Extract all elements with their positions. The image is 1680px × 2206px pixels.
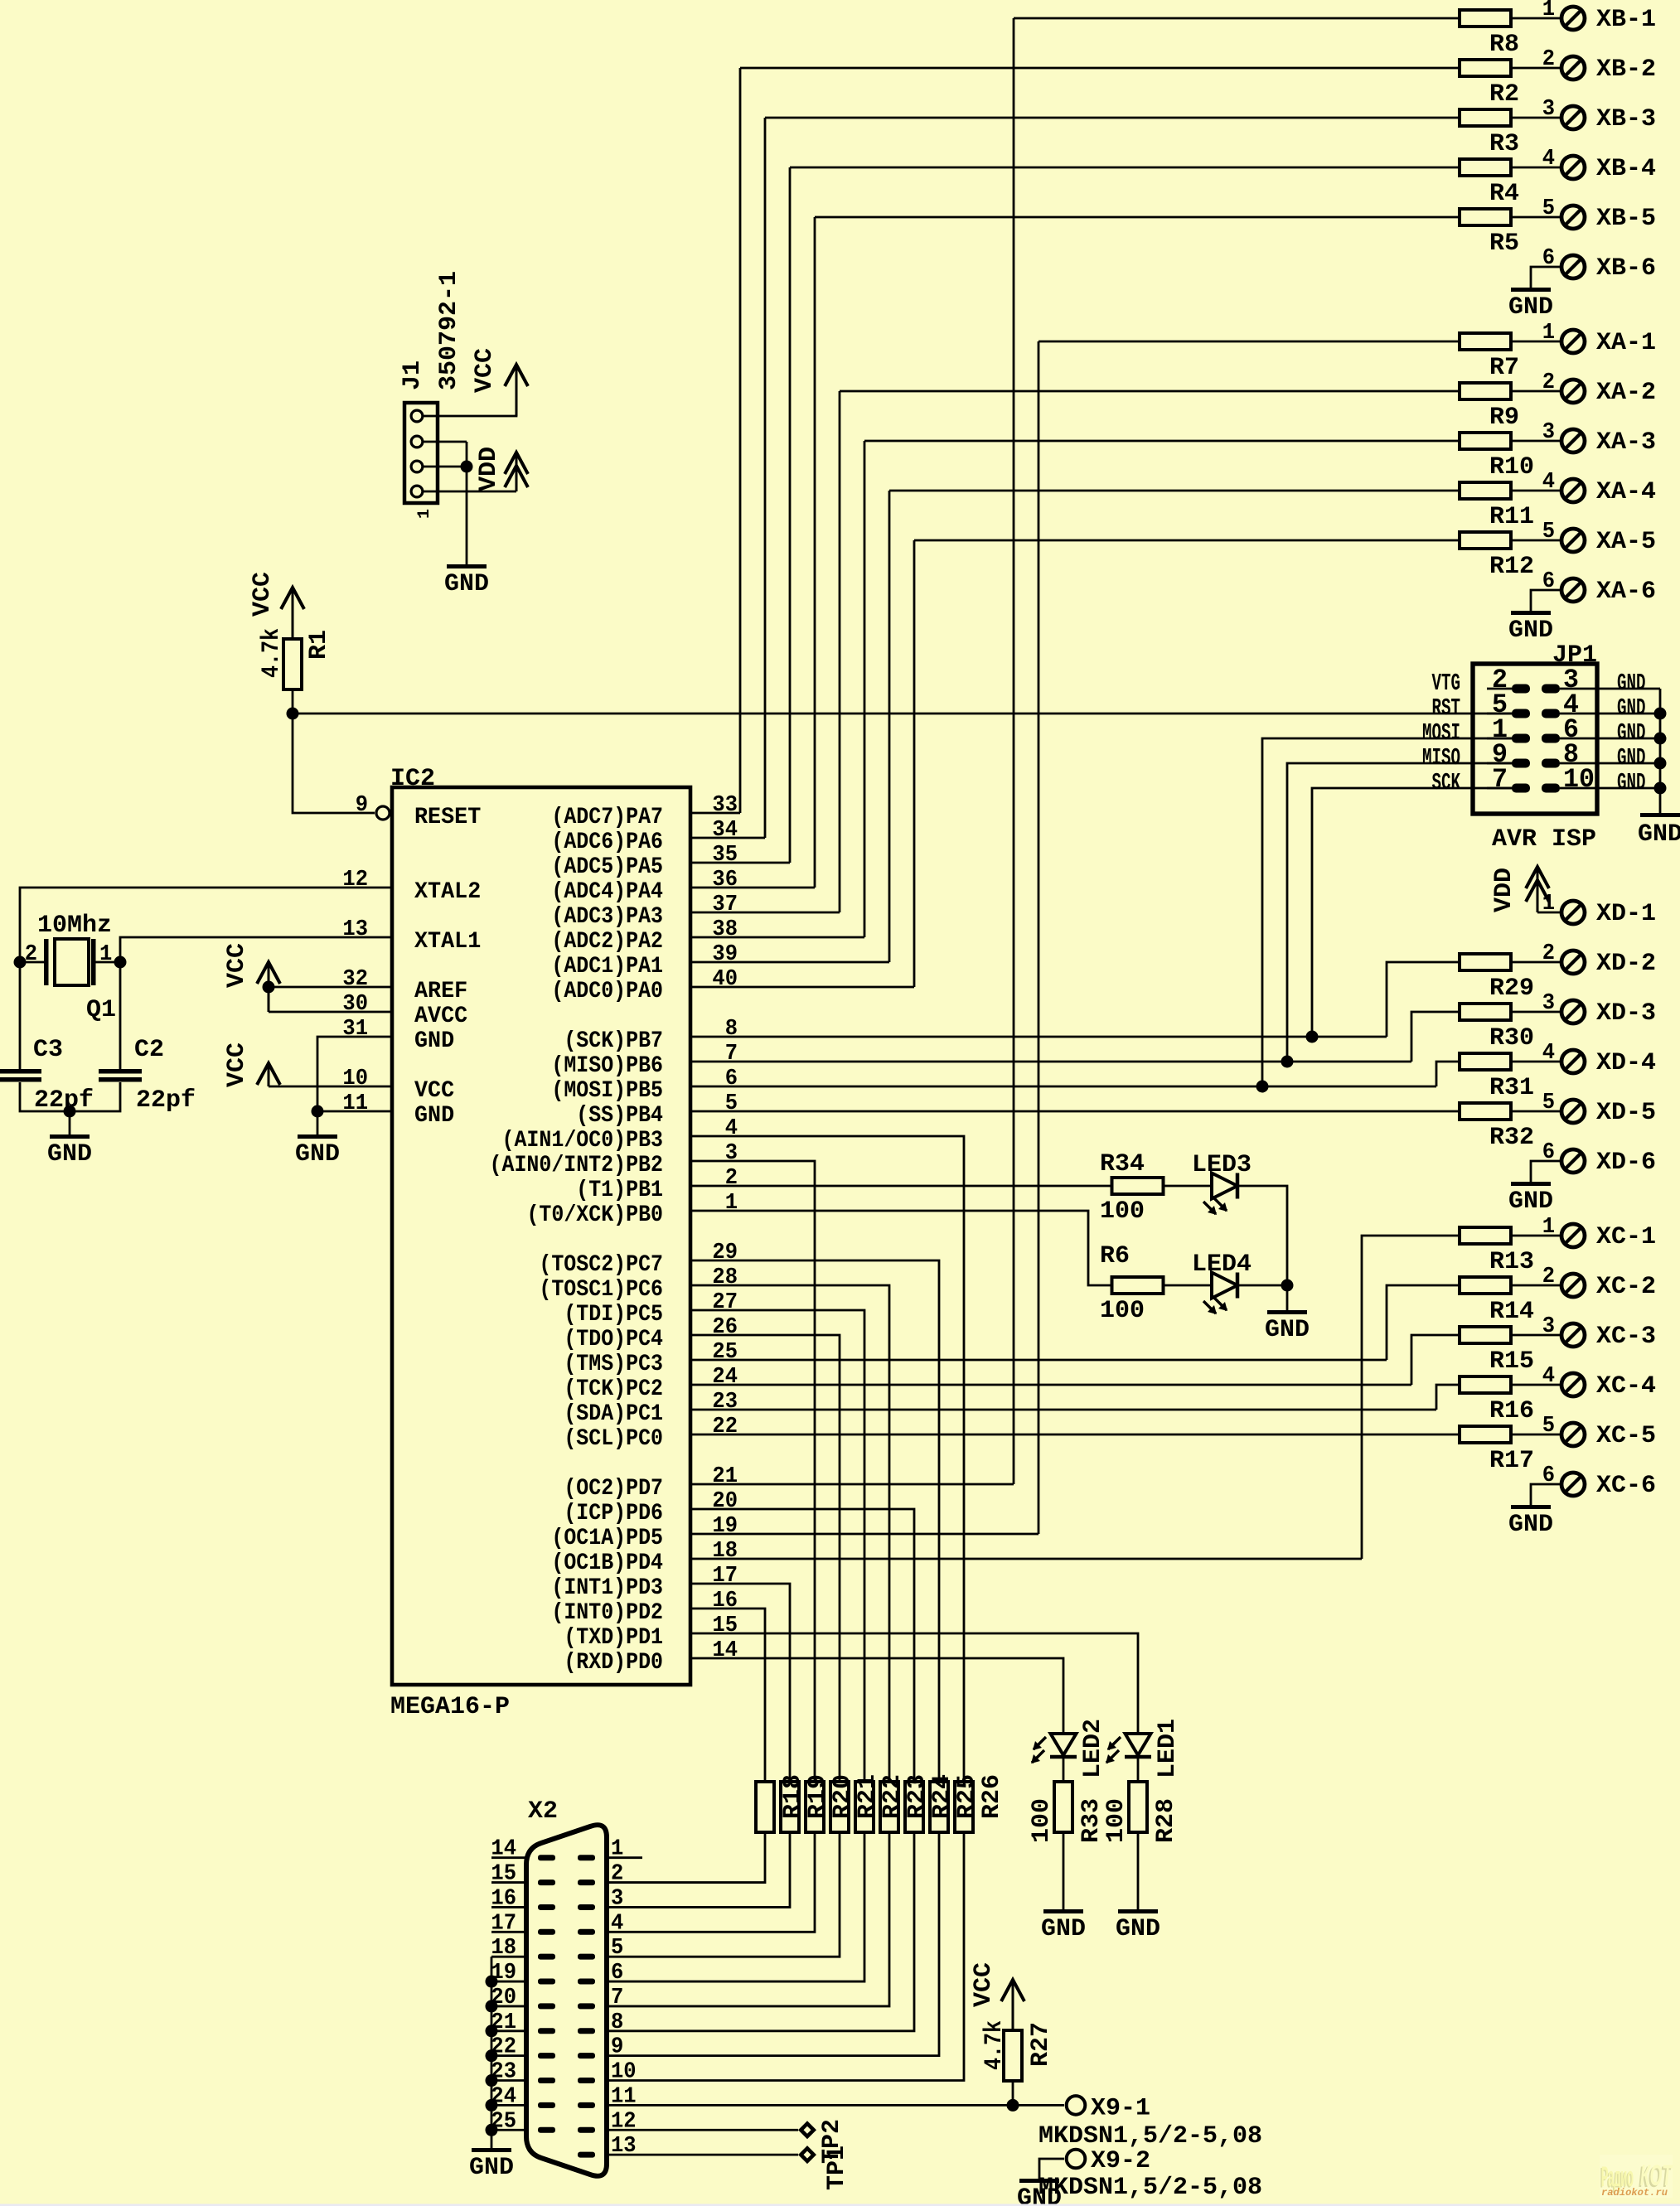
- ground XC-6: [1511, 1505, 1551, 1509]
- svg-text:(ADC3)PA3: (ADC3)PA3: [551, 904, 663, 930]
- svg-text:2: 2: [1542, 47, 1555, 72]
- svg-text:(TXD)PD1: (TXD)PD1: [564, 1625, 663, 1651]
- wire AVCC pin 30: [269, 1011, 392, 1014]
- svg-text:2: 2: [1542, 1265, 1555, 1289]
- node PB7 SCK junction: [1306, 1031, 1319, 1043]
- svg-text:XA-5: XA-5: [1596, 528, 1656, 556]
- svg-text:(ADC5)PA5: (ADC5)PA5: [551, 854, 663, 880]
- wire J1 pin top to VCC: [424, 387, 516, 416]
- wire riser to XC-3: [1411, 1335, 1460, 1385]
- terminal XA-2: [1561, 380, 1585, 403]
- svg-text:X2: X2: [528, 1797, 558, 1826]
- svg-text:26: 26: [712, 1315, 738, 1340]
- svg-text:37: 37: [712, 893, 738, 917]
- resistor R14: [1460, 1277, 1511, 1294]
- wire PA1 pin: [690, 961, 889, 964]
- ground LED3 LED4: [1267, 1310, 1307, 1314]
- svg-text:21: 21: [712, 1464, 738, 1489]
- terminal XD-6: [1561, 1149, 1585, 1173]
- resistor R2: [1460, 60, 1511, 76]
- wire riser to XC-1: [1362, 1236, 1460, 1559]
- svg-text:XC-4: XC-4: [1596, 1372, 1656, 1401]
- wire riser to XD-2: [1387, 962, 1460, 1037]
- X2 pad right 3: [578, 1904, 595, 1910]
- node J1 VDD junction: [461, 461, 473, 473]
- wire X2 pin 17: [491, 1931, 526, 1933]
- svg-text:22pf: 22pf: [136, 1086, 196, 1115]
- svg-text:XA-3: XA-3: [1596, 428, 1656, 457]
- svg-text:XD-3: XD-3: [1596, 999, 1656, 1028]
- ground IC2: [298, 1134, 337, 1139]
- X2 pad left 16: [538, 1904, 555, 1910]
- wire crystal right: [95, 961, 120, 964]
- svg-text:XTAL2: XTAL2: [414, 879, 481, 905]
- wire R14 to XC-2: [1511, 1284, 1560, 1287]
- terminal XB-6: [1561, 255, 1585, 278]
- svg-text:XD-4: XD-4: [1596, 1049, 1656, 1077]
- wire JP1 GND bus: [1659, 689, 1662, 813]
- terminal XC-1: [1561, 1224, 1585, 1247]
- svg-text:R6: R6: [1100, 1242, 1130, 1270]
- wire PC6 to R23: [690, 1285, 889, 1782]
- wire PC0 net: [690, 1434, 1460, 1436]
- J1 pin 3 circle: [411, 461, 423, 472]
- svg-text:4: 4: [1542, 470, 1555, 495]
- wire riser PD7 to XB-1: [1013, 18, 1015, 1484]
- terminal XD-1: [1561, 901, 1585, 924]
- wire PD0 to LED2: [690, 1658, 1063, 1734]
- wire R27 bottom: [1012, 2081, 1014, 2105]
- node AREF junction: [263, 981, 275, 994]
- svg-text:5: 5: [1542, 1414, 1555, 1439]
- resistor R24: [905, 1782, 923, 1832]
- svg-text:25: 25: [712, 1340, 738, 1365]
- svg-text:XB-1: XB-1: [1596, 6, 1656, 34]
- svg-text:GND: GND: [47, 1140, 92, 1168]
- svg-text:(TCK)PC2: (TCK)PC2: [564, 1376, 663, 1402]
- svg-text:LED4: LED4: [1192, 1251, 1252, 1279]
- resistor R22: [855, 1782, 874, 1832]
- svg-text:C2: C2: [134, 1036, 164, 1064]
- node R27 junction: [1007, 2099, 1019, 2112]
- svg-text:18: 18: [491, 1936, 516, 1961]
- svg-text:XB-6: XB-6: [1596, 254, 1656, 283]
- wire riser PA0 to XA-5: [913, 540, 916, 987]
- wire MISO: [1287, 763, 1521, 1062]
- svg-text:5: 5: [611, 1936, 623, 1961]
- svg-text:AREF: AREF: [414, 979, 467, 1004]
- svg-text:6: 6: [611, 1961, 623, 1986]
- X2 pad left 17: [538, 1929, 555, 1935]
- svg-text:1: 1: [415, 509, 434, 519]
- resistor R1: [283, 639, 302, 689]
- wire X2 pin 21: [491, 2029, 526, 2032]
- svg-text:GND: GND: [1508, 293, 1553, 322]
- ground XA-6: [1511, 611, 1551, 615]
- svg-text:C3: C3: [33, 1036, 63, 1064]
- power VCC at VCC10: [268, 1063, 270, 1086]
- svg-text:28: 28: [712, 1265, 738, 1290]
- wire R19 to X2 pin 3: [607, 1832, 790, 1907]
- wire XB-4 net: [790, 167, 1460, 169]
- terminal XA-6: [1561, 578, 1585, 602]
- svg-text:(SCK)PB7: (SCK)PB7: [564, 1028, 663, 1054]
- svg-text:XD-5: XD-5: [1596, 1099, 1656, 1127]
- svg-text:5: 5: [1542, 196, 1555, 221]
- X2 pad left 22: [538, 2053, 555, 2058]
- svg-text:R1: R1: [305, 630, 333, 660]
- svg-text:GND: GND: [1041, 1915, 1086, 1943]
- svg-text:10: 10: [1563, 764, 1595, 795]
- wire R12 to XA-5: [1511, 539, 1560, 542]
- wire cap GND: [69, 1111, 71, 1134]
- svg-text:1: 1: [725, 1191, 738, 1216]
- resistor R33: [1054, 1782, 1072, 1832]
- power VDD at XD-1: [1537, 870, 1539, 912]
- node cap GND junction: [64, 1105, 76, 1118]
- terminal XC-2: [1561, 1274, 1585, 1297]
- svg-text:(ADC4)PA4: (ADC4)PA4: [551, 879, 663, 905]
- svg-text:(OC1B)PD4: (OC1B)PD4: [551, 1550, 663, 1576]
- svg-text:27: 27: [712, 1290, 738, 1315]
- resistor R20: [806, 1782, 824, 1832]
- svg-text:R31: R31: [1489, 1074, 1534, 1102]
- svg-text:XC-1: XC-1: [1596, 1223, 1656, 1251]
- svg-text:J1: J1: [399, 360, 427, 390]
- svg-text:10: 10: [342, 1067, 368, 1091]
- wire LED1 to R28: [1137, 1757, 1140, 1782]
- node X2 pin 24 junction: [486, 2099, 498, 2112]
- svg-text:4: 4: [611, 1911, 623, 1936]
- wire C2 bottom: [70, 1082, 120, 1111]
- wire C3 bottom: [20, 1082, 70, 1111]
- wire XA-6 to GND: [1531, 590, 1560, 611]
- wire R32 to XD-5: [1511, 1110, 1560, 1113]
- svg-text:R5: R5: [1489, 230, 1519, 258]
- wire PA5 pin: [690, 862, 790, 864]
- X2 pad left 14: [538, 1855, 555, 1860]
- node X2 pin 20 junction: [486, 2000, 498, 2012]
- svg-text:VCC: VCC: [223, 1043, 251, 1087]
- svg-text:MKDSN1,5/2-5,08: MKDSN1,5/2-5,08: [1039, 2122, 1262, 2150]
- svg-text:4: 4: [725, 1116, 738, 1141]
- terminal XB-1: [1561, 7, 1585, 30]
- svg-text:GND: GND: [1508, 617, 1553, 645]
- J1 pin 1 circle: [411, 410, 423, 422]
- X2 pad right 7: [578, 2003, 595, 2009]
- wire GND pin 11: [317, 1110, 392, 1113]
- JP1 pin 7 pad: [1512, 784, 1530, 793]
- wire riser PA3 to XA-2: [839, 391, 841, 912]
- wire PD3 to R19: [690, 1584, 790, 1782]
- wire XD-6 to GND: [1531, 1161, 1560, 1182]
- terminal XD-4: [1561, 1050, 1585, 1073]
- terminal XB-4: [1561, 156, 1585, 179]
- svg-text:(ADC6)PA6: (ADC6)PA6: [551, 830, 663, 855]
- wire X2 pin 16: [491, 1906, 526, 1908]
- ground Q1 caps: [50, 1134, 90, 1139]
- wire R24 to X2 pin 8: [607, 1832, 914, 2031]
- X2 pad right 2: [578, 1879, 595, 1885]
- bottom edge strip: [0, 2204, 1680, 2206]
- label J1: [399, 360, 427, 390]
- svg-text:R4: R4: [1489, 180, 1519, 208]
- svg-text:SCK: SCK: [1432, 769, 1461, 796]
- terminal XB-3: [1561, 106, 1585, 129]
- wire R20 to X2 pin 4: [607, 1832, 815, 1932]
- wire R28 to GND: [1137, 1832, 1140, 1909]
- svg-text:GND: GND: [1265, 1316, 1310, 1344]
- svg-text:R11: R11: [1489, 503, 1534, 531]
- X2 pad right 11: [578, 2102, 595, 2108]
- wire PB7 net: [690, 1036, 1387, 1038]
- svg-text:XC-3: XC-3: [1596, 1323, 1656, 1351]
- wire PD2 to R18: [690, 1609, 765, 1782]
- terminal X9-1: [1067, 2096, 1086, 2115]
- wire R18 to X2 pin 2: [607, 1832, 765, 1883]
- resistor R17: [1460, 1426, 1511, 1443]
- node X2 pin 25 junction: [486, 2124, 498, 2136]
- svg-text:32: 32: [342, 967, 368, 992]
- svg-text:R32: R32: [1489, 1124, 1534, 1152]
- wire PA7 pin: [690, 812, 740, 815]
- svg-text:R30: R30: [1489, 1024, 1534, 1052]
- svg-text:R26: R26: [978, 1774, 1006, 1819]
- wire R1 bottom: [292, 689, 294, 714]
- wire riser PA4 to XB-5: [814, 217, 816, 888]
- wire R31 to XD-4: [1511, 1061, 1560, 1063]
- svg-text:4: 4: [1542, 1041, 1555, 1066]
- svg-text:14: 14: [491, 1837, 516, 1862]
- resistor R27: [1004, 2030, 1022, 2081]
- connector J1 body: [404, 403, 438, 503]
- svg-text:(TDO)PC4: (TDO)PC4: [564, 1327, 663, 1352]
- wire XB-1 net: [1014, 17, 1460, 20]
- wire X2 pin 25: [491, 2129, 526, 2131]
- resistor R3: [1460, 109, 1511, 126]
- svg-text:VCC: VCC: [249, 572, 277, 617]
- svg-text:(AIN0/INT2)PB2: (AIN0/INT2)PB2: [490, 1153, 663, 1178]
- svg-text:GND: GND: [1617, 670, 1646, 697]
- svg-text:VDD: VDD: [475, 447, 503, 491]
- X2 pad left 24: [538, 2102, 555, 2108]
- power VCC at J1: [516, 365, 518, 416]
- svg-text:LED2: LED2: [1079, 1719, 1107, 1778]
- resistor R18: [756, 1782, 774, 1832]
- svg-text:11: 11: [342, 1091, 368, 1116]
- svg-text:39: 39: [712, 942, 738, 967]
- wire VCC pin 10: [269, 1086, 392, 1088]
- svg-text:5: 5: [1542, 1091, 1555, 1115]
- wire R26 to X2 pin 10: [607, 1832, 964, 2081]
- wire PB4 net: [690, 1110, 1460, 1113]
- power VDD at J1: [516, 456, 518, 491]
- ground X2: [472, 2148, 511, 2152]
- reset bubble IC2 pin 9: [376, 806, 390, 820]
- svg-text:10Mhz: 10Mhz: [37, 912, 112, 940]
- svg-text:GND: GND: [1638, 820, 1680, 849]
- wire IC GND down: [317, 1111, 319, 1134]
- wire R34 to LED3: [1163, 1185, 1212, 1188]
- JP1 pin 3 pad: [1542, 685, 1560, 694]
- wire riser PD5 to XA-1: [1038, 341, 1040, 1534]
- svg-text:9: 9: [611, 2035, 623, 2060]
- ground R33: [1043, 1909, 1083, 1913]
- JP1 pin 5 pad: [1512, 709, 1530, 718]
- wire GND pin 31: [317, 1037, 392, 1111]
- wire riser PA1 to XA-4: [888, 491, 891, 962]
- svg-text:18: 18: [712, 1539, 738, 1564]
- wire XB-6 to GND: [1531, 267, 1560, 288]
- terminal XC-6: [1561, 1473, 1585, 1496]
- wire R23 to X2 pin 7: [607, 1832, 889, 2006]
- svg-text:2: 2: [725, 1166, 738, 1191]
- X2 pad right 9: [578, 2053, 595, 2058]
- wire XTAL1 pin 13: [120, 937, 392, 962]
- resistor R12: [1460, 532, 1511, 549]
- resistor R30: [1460, 1004, 1511, 1020]
- wire R8 to XB-1: [1511, 17, 1560, 20]
- wire PD1 to LED1: [690, 1633, 1138, 1734]
- wire X2 GND bus: [491, 1957, 493, 2148]
- terminal XB-5: [1561, 206, 1585, 229]
- svg-text:17: 17: [712, 1564, 738, 1589]
- wire R13 to XC-1: [1511, 1235, 1560, 1237]
- node RESET junction: [287, 708, 299, 720]
- svg-text:GND: GND: [444, 570, 489, 598]
- X2 pad left 23: [538, 2078, 555, 2083]
- terminal XA-3: [1561, 429, 1585, 452]
- node JP1 GND junction: [1654, 733, 1667, 745]
- svg-text:14: 14: [712, 1638, 738, 1663]
- svg-text:1: 1: [99, 942, 112, 967]
- svg-text:20: 20: [712, 1489, 738, 1514]
- svg-text:TP1: TP1: [823, 2146, 851, 2190]
- wire crystal left: [20, 961, 44, 964]
- svg-text:R33: R33: [1077, 1798, 1106, 1843]
- power VCC at R1: [292, 588, 294, 639]
- JP1 pin 4 pad: [1542, 709, 1560, 718]
- svg-text:7: 7: [611, 1986, 623, 2010]
- svg-text:(ICP)PD6: (ICP)PD6: [564, 1501, 663, 1526]
- svg-text:X9-1: X9-1: [1091, 2094, 1150, 2122]
- wire PC2 net: [690, 1384, 1411, 1386]
- wire PC4 to R21: [690, 1335, 840, 1782]
- resistor R16: [1460, 1376, 1511, 1393]
- svg-text:100: 100: [1028, 1798, 1056, 1843]
- wire XA-1 net: [1039, 341, 1460, 343]
- svg-text:3: 3: [1542, 991, 1555, 1016]
- svg-text:2: 2: [1542, 370, 1555, 395]
- svg-text:R14: R14: [1489, 1298, 1534, 1326]
- wire C2 top: [119, 962, 122, 1070]
- svg-text:33: 33: [712, 793, 738, 818]
- wire R2 to XB-2: [1511, 67, 1560, 70]
- svg-text:16: 16: [491, 1886, 516, 1911]
- svg-text:XC-5: XC-5: [1596, 1422, 1656, 1450]
- svg-text:(INT1)PD3: (INT1)PD3: [551, 1575, 663, 1601]
- svg-text:MEGA16-P: MEGA16-P: [390, 1693, 510, 1721]
- wire J1 pin3: [424, 466, 467, 468]
- svg-text:40: 40: [712, 967, 738, 992]
- terminal XA-1: [1561, 330, 1585, 353]
- wire X2 pin 18: [491, 1956, 526, 1958]
- svg-text:35: 35: [712, 843, 738, 868]
- svg-text:R13: R13: [1489, 1248, 1534, 1276]
- terminal XC-5: [1561, 1423, 1585, 1446]
- power VCC at AREF: [268, 962, 270, 1012]
- resistor R28: [1129, 1782, 1147, 1832]
- svg-text:2: 2: [1542, 941, 1555, 966]
- led LED3: [1212, 1173, 1237, 1199]
- wire riser to XC-4: [1436, 1385, 1460, 1410]
- svg-text:24: 24: [712, 1365, 738, 1390]
- svg-text:XD-1: XD-1: [1596, 900, 1656, 928]
- watermark RadioKOT: [1600, 2155, 1673, 2198]
- svg-text:XB-4: XB-4: [1596, 155, 1656, 183]
- wire X2 pin 15: [491, 1881, 526, 1884]
- resistor R32: [1460, 1103, 1511, 1120]
- ground XB-6: [1511, 288, 1551, 292]
- svg-text:350792-1: 350792-1: [435, 271, 463, 390]
- label 350792-1: [435, 271, 463, 390]
- node XTAL2 junction: [14, 956, 27, 969]
- wire riser to XD-3: [1411, 1012, 1460, 1062]
- wire R4 to XB-4: [1511, 167, 1560, 169]
- svg-text:GND: GND: [1508, 1188, 1553, 1216]
- terminal XD-3: [1561, 1000, 1585, 1023]
- svg-text:100: 100: [1102, 1798, 1130, 1843]
- wire LED3 cathode: [1237, 1186, 1287, 1285]
- svg-text:LED1: LED1: [1154, 1719, 1182, 1778]
- wire RESET down: [293, 714, 375, 813]
- resistor R13: [1460, 1227, 1511, 1244]
- X2 pad right 13: [578, 2152, 595, 2158]
- wire riser to XC-2: [1387, 1285, 1460, 1360]
- svg-text:5: 5: [1542, 520, 1555, 544]
- X2 pad left 21: [538, 2028, 555, 2034]
- svg-text:1: 1: [1542, 892, 1555, 917]
- svg-text:(T1)PB1: (T1)PB1: [576, 1178, 663, 1203]
- node XTAL1 junction: [114, 956, 127, 969]
- svg-text:R29: R29: [1489, 975, 1534, 1003]
- svg-text:(ADC0)PA0: (ADC0)PA0: [551, 979, 663, 1004]
- svg-text:(OC1A)PD5: (OC1A)PD5: [551, 1526, 663, 1551]
- wire J1 bus down: [466, 442, 468, 564]
- svg-text:1: 1: [1542, 321, 1555, 346]
- resistor R11: [1460, 482, 1511, 499]
- wire XA-5 net: [914, 539, 1460, 542]
- node X2 pin 19 junction: [486, 1976, 498, 1988]
- wire R21 to X2 pin 5: [607, 1832, 840, 1957]
- node LED GND junction: [1281, 1280, 1294, 1292]
- wire LED4 cathode: [1237, 1284, 1287, 1287]
- svg-text:RST: RST: [1432, 694, 1461, 722]
- ground R28: [1118, 1909, 1158, 1913]
- wire XB-3 net: [765, 117, 1460, 119]
- wire XC-6 to GND: [1531, 1484, 1560, 1505]
- wire PD6 to R24: [690, 1509, 914, 1782]
- resistor R29: [1460, 954, 1511, 970]
- svg-text:9: 9: [356, 793, 368, 818]
- svg-text:XB-5: XB-5: [1596, 205, 1656, 233]
- wire X2 pin 20: [491, 2005, 526, 2008]
- wire XA-4 net: [889, 490, 1460, 492]
- svg-text:4.7k: 4.7k: [258, 628, 286, 678]
- wire XA-3 net: [864, 440, 1460, 443]
- wire C3 top: [19, 962, 22, 1070]
- wire X2 pin 11 to X9-1: [607, 2104, 1064, 2107]
